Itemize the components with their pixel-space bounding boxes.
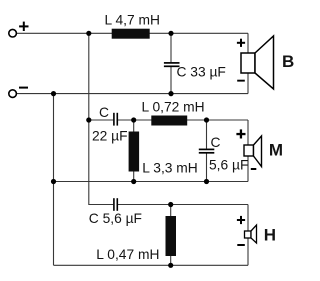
inductor L1 L 4,7 mH (112, 29, 150, 39)
wire top rail from + terminal to B branch (17, 32, 248, 34)
wire H speaker vertical drop (247, 205, 249, 266)
svg-text:L 0,47 mH: L 0,47 mH (96, 247, 159, 262)
wire M line C22 to M speaker (118, 119, 248, 121)
plus sign B (237, 39, 245, 47)
wire H line cap to speaker (118, 204, 248, 206)
svg-text:L 0,72 mH: L 0,72 mH (142, 100, 205, 115)
svg-text:B: B (282, 52, 294, 71)
svg-text:5,6 µF: 5,6 µF (209, 157, 248, 172)
inductor L4 L 0,47 mH (166, 216, 177, 256)
minus sign B (237, 80, 245, 82)
wire C5.6 M shunt lower (206, 154, 208, 182)
capacitor C1 C 33 uF plates (164, 63, 180, 66)
svg-text:C 5,6 µF: C 5,6 µF (89, 211, 142, 226)
wire left minus rail (53, 94, 55, 266)
wire plus-node vertical x=88.8 (89, 33, 113, 204)
inductor L3 L 3,3 mH (129, 132, 140, 172)
svg-text:22 µF: 22 µF (92, 128, 128, 143)
terminal plus input (9, 29, 17, 37)
plus sign H (237, 216, 245, 224)
minus sign H (237, 244, 245, 246)
svg-text:C: C (99, 105, 109, 120)
wire minus rail (17, 93, 248, 95)
minus sign input (19, 87, 28, 89)
speaker H horn (251, 225, 257, 243)
svg-text:L 3,3 mH: L 3,3 mH (142, 160, 197, 175)
capacitor C3 5,6 uF plates (199, 149, 215, 152)
speaker M box (244, 145, 254, 156)
svg-text:L 4,7 mH: L 4,7 mH (105, 13, 160, 28)
svg-text:C 33 µF: C 33 µF (177, 64, 226, 79)
wire L0.47 shunt (170, 205, 172, 266)
wire bottom rail (54, 264, 249, 266)
wire B speaker vertical drop (247, 33, 249, 93)
speaker H box (245, 231, 252, 238)
wire M line left of C22 (89, 119, 113, 121)
wire L3.3 shunt (133, 120, 135, 182)
wire M bottom rail (54, 181, 249, 183)
capacitor C4 C 5,6 uF plates (114, 198, 117, 211)
svg-text:M: M (269, 141, 283, 160)
plus sign input (19, 22, 28, 31)
capacitor C2 22 uF plates (114, 113, 117, 126)
speaker B box (241, 53, 255, 73)
inductor L2 L 0,72 mH (151, 116, 187, 126)
minus sign M (251, 168, 256, 170)
wire C5.6 M shunt upper (206, 120, 208, 149)
speaker M horn (254, 136, 262, 167)
plus sign M (236, 129, 245, 138)
svg-text:C: C (211, 135, 221, 150)
node junction dots (51, 31, 209, 268)
terminal minus input (9, 90, 17, 98)
speaker B horn (255, 36, 274, 89)
wire M speaker vertical drop (247, 120, 249, 182)
wire C33 shunt branch upper (170, 33, 172, 62)
svg-text:H: H (264, 226, 276, 245)
wire C33 shunt branch lower (170, 67, 172, 94)
